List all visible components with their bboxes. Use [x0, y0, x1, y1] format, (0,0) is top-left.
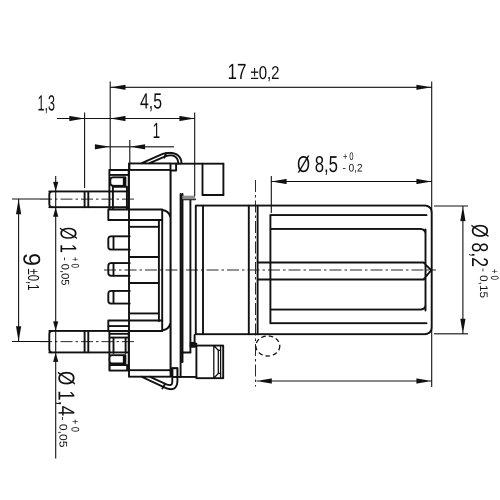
bottom dim arrows: [257, 378, 272, 383]
extension line barrel top (8,2 dim): [434, 205, 468, 207]
svg-text:4,5: 4,5: [140, 89, 162, 114]
svg-text:Ø 1,4: Ø 1,4: [54, 371, 80, 416]
arrowheads 17 dim: [110, 85, 125, 90]
barrel internal verticals: [202, 206, 204, 335]
svg-text:- 0,15: - 0,15: [477, 268, 489, 298]
svg-text:9: 9: [18, 253, 45, 266]
svg-text:- 0,05: - 0,05: [59, 257, 71, 286]
top pin centerline: [40, 198, 137, 200]
washer / gasket region: [182, 194, 184, 362]
extension line x=85 (1,3 dim): [84, 113, 86, 189]
svg-text:+ 0: + 0: [69, 419, 81, 432]
bore lines: [270, 229, 425, 234]
end chamfer line: [425, 230, 427, 311]
carrier bottom rim inner line: [129, 369, 171, 371]
middle contact pin 1: [108, 236, 129, 249]
bottom small plate: [110, 365, 128, 371]
top D-boss: [110, 177, 125, 186]
top latch hook: [142, 153, 182, 163]
bottom latch hook: [172, 368, 177, 377]
svg-text:Ø 8,5: Ø 8,5: [297, 151, 338, 177]
top pin square-shoulder step: [84, 191, 86, 207]
svg-text:+ 0: + 0: [343, 151, 354, 163]
barrel secondary thread lines: [270, 214, 426, 216]
9 arrows: [16, 199, 21, 214]
Ø8,5 dim line: [271, 181, 431, 183]
middle contact pin 2: [108, 263, 129, 276]
extension line top pin axis (9 dim): [12, 198, 48, 200]
extension line at flange front face x=110: [109, 82, 111, 171]
fillet carrier to flange bottom: [162, 323, 170, 330]
svg-text:- 0,2: - 0,2: [343, 163, 363, 175]
svg-text:17: 17: [228, 59, 247, 84]
1,3 left outside arrow: [69, 116, 84, 121]
bottom collar inner box: [113, 338, 115, 353]
main horizontal centerline: [104, 269, 436, 271]
1 dim line: [95, 146, 174, 148]
grey gasket strip: [182, 196, 195, 200]
bottom D-boss: [109, 355, 125, 363]
pin dia dim line: [55, 176, 57, 459]
insert internal steps: [130, 226, 159, 228]
extension line x=195 (4,5 dim): [194, 113, 196, 197]
svg-text:Ø 8,2: Ø 8,2: [467, 224, 493, 267]
fillet carrier to flange top: [162, 210, 170, 217]
extension line bottom pin axis (9 dim): [12, 341, 48, 343]
carrier housing body: [129, 163, 171, 376]
barrel outer: [196, 206, 432, 335]
svg-text:±0,1: ±0,1: [24, 269, 41, 291]
center pin inside barrel: [258, 262, 424, 264]
top collar column: [108, 170, 110, 210]
bottom block (PCB standoff): [194, 335, 196, 346]
Ø8,2 arrows: [460, 206, 465, 221]
Ø1,4 arrows (bottom pin, outside): [53, 321, 58, 331]
4,5 / 1,3 dim line: [57, 118, 195, 120]
4,5 arrows: [110, 116, 125, 121]
extension line at barrel end x=432: [431, 82, 433, 388]
extension line barrel bottom (8,2 dim): [434, 333, 468, 335]
top collar inner box: [113, 186, 127, 188]
bottom pin (Ø1,4): [49, 330, 128, 332]
dashed hidden circle: [256, 336, 280, 356]
1 outside arrows: [95, 144, 110, 149]
svg-text:1,3: 1,3: [38, 91, 56, 116]
carrier top rim inner line: [129, 169, 171, 171]
svg-text:- 0,05: - 0,05: [57, 417, 69, 448]
svg-text:±0,2: ±0,2: [251, 62, 280, 83]
insert step block verticals: [158, 220, 160, 321]
top silhouette behind flange (hex block): [176, 163, 223, 165]
Ø8,2 dim line: [462, 206, 464, 334]
flange: [171, 164, 181, 377]
Ø8,5 arrows: [271, 179, 286, 184]
9 dim line: [18, 199, 20, 342]
svg-text:Ø 1: Ø 1: [56, 227, 82, 253]
Ø1 arrows (top pin, outside): [53, 182, 58, 192]
17 dim line: [110, 86, 432, 88]
top pin (Ø1): [49, 190, 128, 192]
svg-text:1: 1: [153, 118, 161, 143]
top shoulder plate: [108, 210, 162, 221]
extension line x=130 (1 dim): [129, 140, 131, 170]
bottom pin centerline: [40, 341, 137, 343]
vertical centerline through barrel (extension of bottom dimension): [255, 180, 257, 387]
bottom shoulder plate: [108, 321, 162, 332]
extension line x=271 (8,5 dim): [270, 176, 272, 213]
middle contact pin 3: [108, 291, 129, 304]
bottom pin square-shoulder step: [84, 331, 86, 353]
bottom collar column: [108, 331, 110, 370]
bottom dim line: [257, 380, 432, 382]
